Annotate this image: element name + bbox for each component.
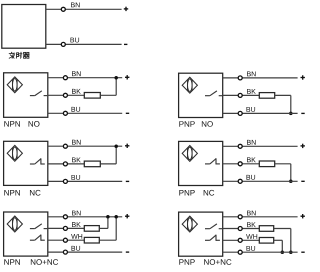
terminal BK (PNP NO) <box>238 93 242 97</box>
label WH (NPN NO+NC) <box>71 234 82 239</box>
label BN (NPN NO) <box>72 71 81 76</box>
terminal BN (NPN NC) <box>63 144 67 148</box>
switch NC (NPN NC) <box>30 158 45 164</box>
wire BU (PNP NO) <box>223 112 298 114</box>
terminal BU (PNP NO+NC) <box>238 250 242 254</box>
wire BN (PNP NC) <box>223 145 298 147</box>
terminal WH (PNP NO+NC) <box>238 238 242 242</box>
terminal BN (NPN NO) <box>63 76 67 80</box>
minus terminal (transmitter) <box>124 43 127 45</box>
terminal BN (NPN NO+NC) <box>63 215 67 219</box>
sensor box (NPN NO+NC) <box>4 212 48 256</box>
junction (NPN NO) <box>114 76 118 80</box>
terminal BK (PNP NO+NC) <box>238 227 242 231</box>
minus terminal (NPN NO+NC) <box>126 251 129 253</box>
wire BK (NPN NC) <box>48 163 85 165</box>
label NPN (NPN NO) <box>4 121 20 127</box>
wire BU (NPN NO) <box>48 112 122 114</box>
label NO+NC (NPN NO+NC) <box>31 259 58 265</box>
wire BK (PNP NO+NC) <box>223 228 260 230</box>
label BN (PNP NO+NC) <box>247 211 256 216</box>
transmitter box <box>2 5 46 49</box>
wire BK riser (NPN NO+NC) <box>99 217 108 229</box>
switch NO (PNP NO) <box>205 91 222 96</box>
label BU (NPN NO+NC) <box>71 246 80 251</box>
wire BK (PNP NO) <box>223 94 260 96</box>
wire BU (NPN NC) <box>48 180 122 182</box>
junction BK (PNP NO+NC) <box>289 250 293 254</box>
label BN (NPN NC) <box>72 140 81 145</box>
label BU (transmitter) <box>70 38 79 43</box>
sensor symbol (NPN NC) <box>7 145 22 161</box>
terminal BN (PNP NO+NC) <box>238 215 242 219</box>
sensor symbol (PNP NC) <box>182 145 197 161</box>
label PNP (PNP NC) <box>179 190 194 196</box>
label NPN (NPN NC) <box>4 190 20 196</box>
sensor box (PNP NO+NC) <box>179 212 223 256</box>
terminal BK (PNP NC) <box>238 162 242 166</box>
switch NO (NPN NO) <box>30 91 47 96</box>
wire junction dropper (PNP NO) <box>290 95 292 113</box>
wire WH (NPN NO+NC) <box>48 239 85 241</box>
wire BK (PNP NC) <box>223 163 260 165</box>
wire junction riser (NPN NC) <box>115 146 117 164</box>
switch NC (NPN NO+NC) <box>30 235 45 241</box>
label BK (NPN NO+NC) <box>72 222 81 227</box>
switch NC (PNP NO+NC) <box>205 235 220 241</box>
junction BK (NPN NO+NC) <box>106 215 110 219</box>
terminal BU (NPN NC) <box>63 179 67 183</box>
label NPN (NPN NO+NC) <box>4 259 20 265</box>
label BU (PNP NO) <box>246 107 255 112</box>
wire WH dropper (PNP NO+NC) <box>274 240 283 252</box>
terminal BU (NPN NO) <box>63 111 67 115</box>
terminal BU (NPN NO+NC) <box>63 250 67 254</box>
wire BK dropper (PNP NO+NC) <box>274 229 291 253</box>
label BK (PNP NC) <box>247 157 256 162</box>
junction (PNP NC) <box>289 180 293 184</box>
label BU (NPN NO) <box>71 107 80 112</box>
sensor symbol (PNP NO+NC) <box>182 216 197 232</box>
switch NO (NPN NO+NC) <box>30 224 47 229</box>
switch NC (PNP NC) <box>205 158 220 164</box>
plus terminal (PNP NC) <box>301 144 305 148</box>
wire BN (transmitter) <box>46 8 122 10</box>
terminal WH (NPN NO+NC) <box>63 238 67 242</box>
label BU (PNP NO+NC) <box>246 246 255 251</box>
resistor load BK (NPN NO+NC) <box>84 226 99 232</box>
sensor symbol (NPN NO+NC) <box>7 216 22 232</box>
junction (PNP NO) <box>289 112 293 116</box>
label NC (NPN NC) <box>30 190 41 196</box>
wire WH (PNP NO+NC) <box>223 239 260 241</box>
label BN (PNP NO) <box>247 71 256 76</box>
resistor load (NPN NO) <box>84 93 100 99</box>
terminal BK (NPN NC) <box>63 162 67 166</box>
label BK (PNP NO+NC) <box>247 222 256 227</box>
sensor box (PNP NO) <box>179 73 223 117</box>
label NO (NPN NO) <box>29 121 40 127</box>
wire BN (NPN NO) <box>48 77 122 79</box>
wire BN (PNP NO) <box>223 77 298 79</box>
plus terminal (PNP NO) <box>301 75 305 79</box>
label NO (PNP NO) <box>202 121 213 127</box>
terminal BU (transmitter) <box>61 42 65 46</box>
plus terminal (NPN NO+NC) <box>125 214 129 218</box>
label BK (PNP NO) <box>247 89 256 94</box>
label NC (PNP NC) <box>204 190 215 196</box>
sensor symbol (PNP NO) <box>182 77 197 93</box>
plus terminal (transmitter) <box>124 7 128 11</box>
resistor load (NPN NC) <box>84 161 100 167</box>
wire BK to junction (PNP NO) <box>275 94 291 96</box>
wire BU (PNP NC) <box>223 180 298 182</box>
wire BK to junction (PNP NC) <box>275 163 291 165</box>
minus terminal (PNP NO+NC) <box>301 251 304 253</box>
label BU (PNP NC) <box>246 175 255 180</box>
wire BU (transmitter) <box>46 43 122 45</box>
terminal BU (PNP NO) <box>238 111 242 115</box>
wire BU (NPN NO+NC) <box>48 251 122 253</box>
junction (NPN NC) <box>114 144 118 148</box>
label BK (NPN NC) <box>72 157 81 162</box>
wire WH riser (NPN NO+NC) <box>99 217 116 240</box>
switch NO (PNP NO+NC) <box>205 224 222 229</box>
label BU (NPN NC) <box>71 175 80 180</box>
wire BU (PNP NO+NC) <box>223 251 298 253</box>
plus terminal (PNP NO+NC) <box>301 214 305 218</box>
sensor box (PNP NC) <box>179 141 223 185</box>
label PNP (PNP NO+NC) <box>179 259 194 265</box>
sensor box (NPN NC) <box>4 141 48 185</box>
resistor load BK (PNP NO+NC) <box>259 226 273 232</box>
label BN (transmitter) <box>71 2 80 7</box>
terminal BN (PNP NO) <box>238 76 242 80</box>
resistor load (PNP NO) <box>259 93 274 99</box>
wire junction dropper (PNP NC) <box>290 164 292 182</box>
terminal BU (PNP NC) <box>238 179 242 183</box>
label PNP (PNP NO) <box>179 121 194 127</box>
sensor box (NPN NO) <box>4 73 48 118</box>
label BN (PNP NC) <box>247 140 256 145</box>
minus terminal (PNP NC) <box>301 180 304 182</box>
junction WH (NPN NO+NC) <box>114 215 118 219</box>
label BN (NPN NO+NC) <box>72 211 81 216</box>
label WH (PNP NO+NC) <box>246 234 257 239</box>
junction WH (PNP NO+NC) <box>281 250 285 254</box>
wire BK to junction (NPN NO) <box>100 94 116 96</box>
wire junction riser (NPN NO) <box>115 78 117 96</box>
wire BK to junction (NPN NC) <box>100 163 116 165</box>
terminal BK (NPN NO) <box>63 93 67 97</box>
minus terminal (PNP NO) <box>301 112 304 114</box>
label 发射器 (emitter) <box>9 52 29 58</box>
terminal BK (NPN NO+NC) <box>63 226 67 230</box>
wire BK (NPN NO) <box>48 94 85 96</box>
resistor load WH (PNP NO+NC) <box>259 238 273 244</box>
plus terminal (NPN NC) <box>125 144 129 148</box>
wire BN (NPN NO+NC) <box>48 216 122 218</box>
wire BN (NPN NC) <box>48 145 122 147</box>
sensor symbol (NPN NO) <box>7 77 22 93</box>
label BK (NPN NO) <box>72 89 81 94</box>
wire BN (PNP NO+NC) <box>223 216 298 218</box>
terminal BN (transmitter) <box>61 7 65 11</box>
plus terminal (NPN NO) <box>125 75 129 79</box>
resistor load WH (NPN NO+NC) <box>84 237 99 243</box>
label NO+NC (PNP NO+NC) <box>204 259 231 265</box>
wire BK (NPN NO+NC) <box>48 227 85 229</box>
minus terminal (NPN NC) <box>126 180 129 182</box>
minus terminal (NPN NO) <box>126 112 129 114</box>
terminal BN (PNP NC) <box>238 144 242 148</box>
resistor load (PNP NC) <box>259 161 274 167</box>
